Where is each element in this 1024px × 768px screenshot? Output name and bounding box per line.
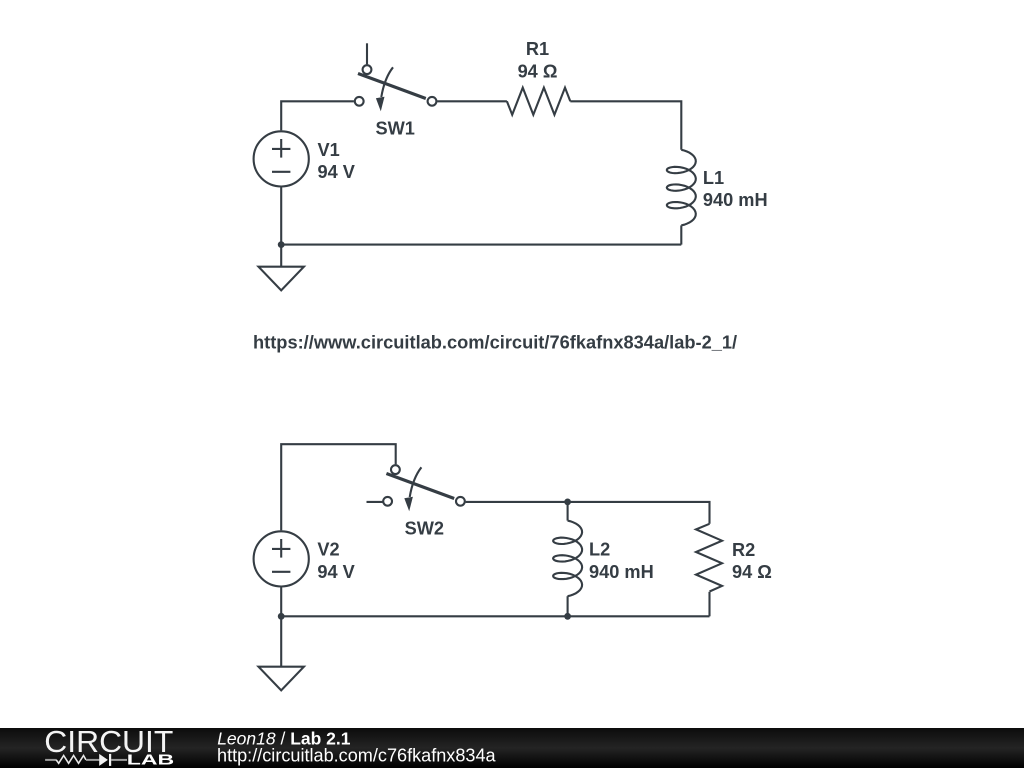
svg-text:R2: R2 xyxy=(732,540,755,560)
svg-text:94 V: 94 V xyxy=(318,162,355,182)
svg-text:94 Ω: 94 Ω xyxy=(732,562,772,582)
svg-text:LAB: LAB xyxy=(127,752,175,768)
svg-text:SW2: SW2 xyxy=(405,519,444,539)
svg-text:R1: R1 xyxy=(526,39,549,59)
svg-text:http://circuitlab.com/c76fkafn: http://circuitlab.com/c76fkafnx834a xyxy=(217,746,497,766)
svg-text:V2: V2 xyxy=(317,540,339,560)
svg-text:L2: L2 xyxy=(589,540,610,560)
svg-text:https://www.circuitlab.com/cir: https://www.circuitlab.com/circuit/76fka… xyxy=(253,331,737,352)
svg-text:94 Ω: 94 Ω xyxy=(518,61,558,81)
svg-text:SW1: SW1 xyxy=(375,118,414,138)
svg-text:940 mH: 940 mH xyxy=(589,562,654,582)
svg-text:94 V: 94 V xyxy=(317,562,354,582)
svg-text:V1: V1 xyxy=(318,140,340,160)
svg-text:L1: L1 xyxy=(703,168,724,188)
svg-text:940 mH: 940 mH xyxy=(703,190,768,210)
